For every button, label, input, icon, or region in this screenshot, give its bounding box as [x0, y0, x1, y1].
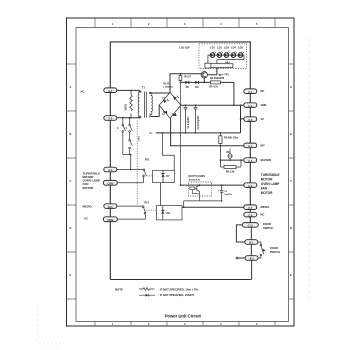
relay linkage dashed line — [136, 121, 138, 206]
wire buzzer row to C-5 — [220, 159, 243, 161]
svg-text:A: A — [70, 85, 72, 89]
label turntable motor group (left) — [83, 171, 101, 189]
svg-text:MOTOR: MOTOR — [261, 178, 273, 182]
connector A-6 — [103, 217, 117, 222]
svg-text:BUZZER: BUZZER — [261, 158, 272, 162]
svg-text:C-2: C-2 — [248, 104, 253, 108]
connector A-2 — [104, 116, 117, 121]
svg-text:C-1: C-1 — [248, 90, 253, 94]
svg-text:C-4: C-4 — [248, 144, 253, 148]
svg-text:RY1: RY1 — [145, 159, 150, 162]
wire Q3 emitter row — [184, 201, 222, 207]
node C1 bottom — [185, 132, 187, 134]
svg-text:OVEN LAMP: OVEN LAMP — [261, 182, 280, 186]
LED labels row — [210, 46, 243, 49]
node R3 top — [220, 132, 222, 134]
connector C-8 — [244, 212, 257, 217]
svg-text:C: C — [70, 179, 72, 183]
wire bridge bottom riser to INT — [170, 118, 244, 146]
svg-text:RY2: RY2 — [144, 201, 149, 204]
svg-text:SWITCH: SWITCH — [270, 250, 280, 254]
wire contact chain to A-3 — [123, 155, 131, 170]
svg-text:A-3: A-3 — [108, 168, 113, 172]
svg-text:Q2 2SB1238: Q2 2SB1238 — [210, 76, 225, 80]
LED display dashed box — [199, 44, 247, 69]
svg-text:: IF NOT SPECIFIED, 1/4w ± 5%: : IF NOT SPECIFIED, 1/4w ± 5% — [158, 288, 198, 291]
svg-text:R6 3.3k: R6 3.3k — [226, 170, 235, 173]
svg-text:R5 4.7k: R5 4.7k — [209, 84, 218, 88]
varistor VRS1 — [124, 90, 133, 117]
capacitor C1 — [184, 105, 190, 133]
connector A-3 — [104, 167, 117, 172]
svg-text:: IF NOT SPECIFIED, 1SS270: : IF NOT SPECIFIED, 1SS270 — [158, 294, 194, 297]
connector A-4 — [103, 180, 117, 185]
svg-text:MICRO: MICRO — [83, 205, 93, 209]
svg-text:GND: GND — [261, 103, 267, 107]
svg-text:B-1: B-1 — [249, 241, 254, 245]
transistor Q2 — [201, 72, 225, 83]
node A-3 junction — [130, 169, 132, 171]
svg-text:B: B — [290, 132, 292, 136]
node VRS1 top — [130, 90, 132, 92]
contact annotation marks — [117, 127, 127, 128]
svg-text:T1: T1 — [142, 86, 146, 90]
svg-text:C1 6.1µ/50v: C1 6.1µ/50v — [188, 116, 190, 129]
svg-text:NOTE: NOTE — [115, 287, 123, 291]
test point TP1 — [219, 73, 230, 77]
wire A-1 to transformer primary — [117, 89, 140, 91]
resistor R3 680 1/2w — [219, 133, 239, 146]
LED bus wire top — [208, 55, 244, 64]
resistor network MA-1 — [205, 61, 233, 74]
svg-text:LD3: LD3 — [224, 46, 229, 49]
node C3 bottom — [221, 200, 223, 202]
svg-text:LD1: LD1 — [210, 46, 215, 49]
svg-text:NC: NC — [261, 213, 265, 217]
svg-text:VRS1: VRS1 — [124, 103, 128, 110]
wire R3 bottom to R6 loop — [219, 146, 221, 160]
svg-text:R4 27: R4 27 — [184, 74, 191, 78]
wire C-6 row — [180, 184, 243, 186]
svg-text:LD1-LD6: LD1-LD6 — [179, 46, 190, 50]
svg-text:C-3: C-3 — [248, 118, 253, 122]
wire secondary top to bridge — [151, 92, 170, 94]
svg-text:A: A — [290, 85, 292, 89]
svg-text:C-8: C-8 — [248, 213, 253, 217]
connector C-6 — [244, 183, 257, 188]
resistor R5 4.7k — [209, 81, 220, 89]
svg-text:C-6: C-6 — [248, 184, 253, 188]
resistor R4 27 — [179, 74, 192, 83]
svg-text:INT: INT — [261, 143, 266, 147]
node contact junction — [130, 154, 132, 156]
buzzer BZ1 — [226, 149, 232, 160]
svg-text:A-1: A-1 — [108, 89, 113, 93]
main circuit outline box — [110, 42, 250, 280]
node bus C6 — [180, 184, 182, 186]
node buzzer bottom — [229, 159, 231, 161]
wire RY2 to C-7 — [182, 206, 244, 208]
svg-text:LD4: LD4 — [231, 46, 236, 49]
LED LD2 — [217, 51, 223, 57]
node V+ RY1 — [162, 132, 164, 134]
svg-text:COM: COM — [107, 218, 113, 222]
LED LD1 — [210, 51, 216, 57]
connector C-11 — [242, 223, 258, 228]
door switch S1 — [258, 242, 265, 258]
relay contact chain b (from A-2) — [129, 118, 133, 155]
wire Q2 to MA-1 riser — [208, 68, 217, 75]
node A-2 contacts — [122, 117, 124, 119]
svg-text:AC: AC — [80, 89, 84, 93]
svg-text:COM: COM — [107, 182, 113, 186]
relay RY1 contact — [117, 169, 147, 183]
node D5 row left — [180, 82, 182, 84]
left control bus wire — [179, 82, 181, 185]
diode D5 — [185, 81, 188, 84]
svg-text:MOTOR: MOTOR — [83, 186, 95, 190]
connector C-4 — [244, 143, 257, 148]
scan artifacts — [309, 40, 310, 299]
relay RY1 linkage dashes — [147, 175, 153, 177]
relay RY2 linkage dashes — [146, 209, 156, 211]
svg-text:MICRO: MICRO — [261, 205, 270, 209]
node VC stub — [240, 118, 242, 120]
svg-text:(R1=R2=4.7k): (R1=R2=4.7k) — [189, 179, 201, 182]
node buzzer left — [220, 159, 222, 161]
connector A-5 — [104, 204, 117, 209]
relay coil RY1 with diode D7 — [153, 170, 175, 182]
bridge rectifier D1-D4 — [159, 82, 181, 118]
svg-text:MA-1: MA-1 — [225, 61, 231, 64]
svg-text:10µ/35v: 10µ/35v — [224, 194, 232, 196]
node B-2 stub end — [236, 257, 238, 259]
svg-text:LD5: LD5 — [238, 46, 243, 49]
connector C-5 — [244, 158, 257, 163]
svg-text:VC: VC — [261, 117, 265, 121]
svg-text:TURNTABLE: TURNTABLE — [261, 173, 280, 177]
svg-text:AC: AC — [84, 216, 88, 220]
node VC riser — [240, 104, 242, 106]
sheet border frame — [67, 18, 295, 326]
connector A-1 — [104, 88, 117, 93]
connector B-1 — [250, 227, 251, 279]
wire C-11 to B-1 loop — [236, 225, 244, 242]
wire A-2 to transformer primary — [117, 117, 140, 119]
svg-text:DOOR: DOOR — [270, 246, 278, 250]
LED LD3 — [224, 51, 230, 57]
note block — [115, 287, 199, 297]
wire R5 row down to plus rail — [233, 82, 235, 105]
svg-text:N.O: N.O — [108, 205, 112, 209]
svg-text:D: D — [290, 226, 292, 230]
svg-text:A-2: A-2 — [108, 117, 113, 121]
node C2 bottom — [195, 132, 197, 134]
wire V+ rail — [156, 132, 241, 134]
node R5 rail — [233, 104, 235, 106]
svg-text:( 1N4003 ): ( 1N4003 ) — [163, 86, 173, 89]
right side pin labels — [261, 89, 281, 254]
wire RY1 coil to RY2 coil — [160, 183, 162, 206]
LED LD4 — [231, 51, 237, 57]
svg-text:MOTOR: MOTOR — [261, 191, 273, 195]
diode D6 — [195, 81, 198, 84]
plus rail wire to C-2 — [181, 104, 244, 106]
connector C-2 — [244, 103, 257, 108]
connector B-2 — [245, 256, 258, 261]
capacitor C2 — [194, 105, 200, 133]
svg-text:C: C — [290, 179, 292, 183]
relay RY2 contact — [117, 206, 146, 219]
wire V+ to RY1 coil — [162, 133, 174, 170]
connector C-7 — [244, 205, 257, 210]
LED LD5 — [238, 51, 244, 57]
transistor Q3 DTC143ES — [188, 174, 211, 201]
svg-text:V+: V+ — [149, 131, 153, 135]
svg-text:C-7: C-7 — [248, 206, 253, 210]
svg-text:SWITCH: SWITCH — [263, 226, 273, 230]
node C2 top — [195, 104, 197, 106]
svg-text:B: B — [70, 132, 72, 136]
node riser V+ — [170, 132, 172, 134]
node R6 right — [240, 159, 242, 161]
connector C-3 — [244, 117, 257, 122]
node R4 top — [180, 73, 182, 75]
wire B-2 left stub — [238, 257, 246, 259]
wire bridge top riser to Q2 row — [170, 74, 201, 93]
svg-text:R3 680 1/2w: R3 680 1/2w — [224, 135, 239, 139]
capacitor C3 — [218, 185, 233, 201]
svg-text:DOOR: DOOR — [263, 222, 271, 226]
node emitter drop — [183, 206, 185, 208]
svg-text:Power Unit Circuit: Power Unit Circuit — [165, 314, 202, 319]
svg-text:C2 1000µ/25v: C2 1000µ/25v — [198, 115, 200, 130]
svg-text:LD2: LD2 — [217, 46, 222, 49]
wire D5 D6 row — [180, 81, 234, 83]
transformer T1 — [138, 86, 152, 119]
relay coil RY2 with diode D8 — [156, 206, 182, 220]
wire VC riser — [241, 105, 244, 133]
relay contact chain a (from A-2) — [122, 118, 126, 155]
svg-text:FAN: FAN — [261, 187, 268, 191]
node C3 top — [221, 184, 223, 186]
svg-text:B-2: B-2 — [250, 257, 255, 261]
node Q2 emitter — [204, 82, 206, 84]
resistor R6 3.3k — [220, 160, 241, 173]
node Q3 collector — [199, 184, 201, 186]
svg-text:C-11: C-11 — [248, 224, 254, 228]
node C1 top — [185, 104, 187, 106]
svg-text:Q3 DTC143ES: Q3 DTC143ES — [188, 174, 205, 178]
svg-text:NC: NC — [261, 89, 265, 93]
svg-text:D: D — [70, 226, 72, 230]
svg-text:TP1: TP1 — [224, 73, 229, 77]
svg-text:(RY): (RY) — [138, 136, 140, 140]
svg-text:C-5: C-5 — [248, 159, 253, 163]
wire secondary bottom to bridge — [151, 105, 159, 116]
node R3 bottom — [220, 145, 222, 147]
